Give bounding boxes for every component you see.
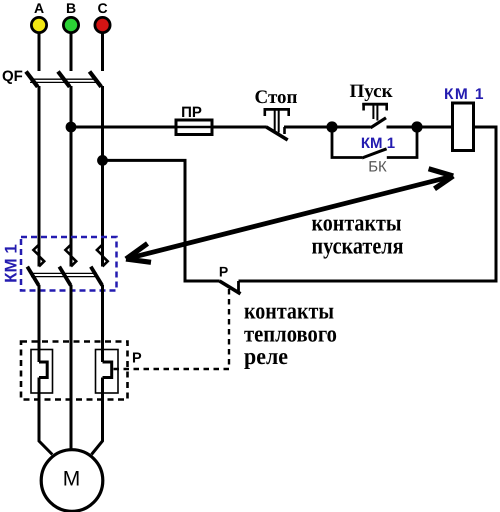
- wire phase A lamp to QF: [38, 33, 41, 71]
- node left of start button: [326, 121, 337, 132]
- wire node to coil: [417, 126, 453, 129]
- svg-text:реле: реле: [244, 344, 288, 370]
- contactor KM1 main contacts enclosure (blue dashed): [21, 237, 117, 291]
- wire phase B lamp to QF: [70, 33, 73, 71]
- wire return left of thermal contact: [103, 160, 220, 281]
- svg-text:Пуск: Пуск: [349, 81, 392, 102]
- stop button NC contact blade: [266, 127, 287, 140]
- annotation arrow (double headed): [126, 169, 453, 262]
- svg-text:БК: БК: [368, 159, 387, 176]
- breaker QF pole A blade: [26, 72, 38, 87]
- heater element phase C outline: [96, 350, 119, 394]
- auxiliary contact branch wires: [332, 127, 362, 158]
- svg-text:ПР: ПР: [181, 104, 202, 121]
- svg-text:С: С: [97, 0, 107, 16]
- wire phase B KM1 to motor: [70, 285, 73, 451]
- thermal relay NC contact right lead drop: [237, 281, 240, 292]
- indicator lamp B (green): [63, 17, 78, 32]
- contactor coil KM1 body: [453, 103, 474, 151]
- wire control bus to fuse: [71, 126, 267, 129]
- node on phase B (control tap): [66, 122, 77, 133]
- auxiliary NO contact KM1 blade: [362, 149, 387, 158]
- wire phase A heater to motor: [39, 378, 52, 455]
- wire stop to node: [284, 126, 332, 129]
- indicator lamp C (red): [95, 17, 110, 32]
- wire phase C KM1 to heater: [101, 285, 104, 362]
- heater element phase A outline: [31, 350, 53, 394]
- wire phase C lamp to QF: [101, 33, 104, 71]
- mechanical link dashed line thermal relay: [112, 289, 229, 369]
- KM1 contacts linkage bar: [31, 272, 97, 274]
- thermal relay enclosure (black dashed): [21, 342, 128, 400]
- KM1 main contact pole C blade: [91, 267, 102, 286]
- wire phase C QF to KM1 contact: [101, 86, 104, 267]
- KM1 main contact pole B chevrons: [65, 245, 71, 256]
- svg-text:КМ 1: КМ 1: [361, 135, 395, 152]
- KM1 main contact pole B blade: [59, 267, 70, 286]
- heater element phase C conductor step: [103, 362, 112, 378]
- svg-text:А: А: [34, 0, 44, 16]
- breaker QF pole C blade: [90, 72, 102, 87]
- node on phase C (control return tap): [97, 155, 108, 166]
- svg-text:КМ 1: КМ 1: [444, 86, 485, 103]
- motor M: [41, 450, 103, 512]
- KM1 main contact pole C chevrons: [97, 245, 103, 256]
- svg-text:Р: Р: [132, 351, 142, 367]
- KM1 main contact pole A chevrons: [33, 245, 39, 256]
- wire phase B QF to KM1 contact: [70, 86, 73, 267]
- wire phase A KM1 to heater: [38, 285, 41, 362]
- svg-text:пускателя: пускателя: [312, 234, 404, 260]
- wire phase A QF to KM1 contact: [38, 86, 41, 267]
- KM1 main contact pole A blade: [27, 267, 38, 286]
- wire through fuse: [176, 126, 212, 129]
- start button NO contact blade: [371, 118, 387, 128]
- node right of start button: [411, 121, 422, 132]
- breaker QF pole B blade: [58, 72, 70, 87]
- wire start contact to node: [387, 126, 418, 129]
- wire phase C heater to motor: [92, 378, 103, 455]
- indicator lamp A (yellow): [31, 17, 46, 32]
- stop button actuator: [264, 108, 291, 133]
- stop contact right lead drop: [283, 127, 286, 134]
- svg-text:Стоп: Стоп: [254, 87, 297, 108]
- heater element phase A conductor step: [39, 362, 47, 378]
- start button actuator: [362, 103, 388, 121]
- svg-text:Р: Р: [219, 264, 228, 280]
- fuse PR body: [176, 120, 212, 135]
- svg-text:КМ 1: КМ 1: [2, 244, 21, 283]
- breaker QF linkage bar: [30, 78, 96, 80]
- thermal relay NC contact blade: [220, 281, 241, 294]
- svg-text:М: М: [63, 468, 81, 491]
- wire node to start contact: [332, 126, 371, 129]
- svg-text:В: В: [66, 0, 76, 16]
- wire coil to right drop: [239, 127, 497, 281]
- svg-text:QF: QF: [2, 68, 23, 85]
